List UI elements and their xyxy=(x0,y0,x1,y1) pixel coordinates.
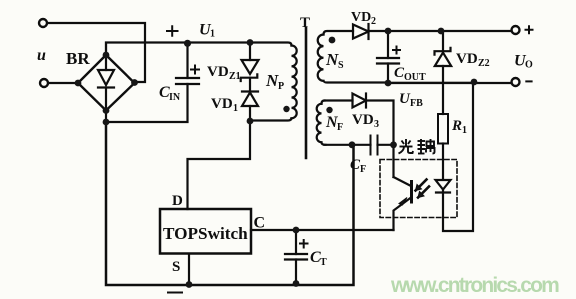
svg-text:www.cntronics.com: www.cntronics.com xyxy=(390,274,559,297)
svg-text:T: T xyxy=(300,15,310,31)
svg-text:S: S xyxy=(172,259,180,275)
svg-text:2: 2 xyxy=(371,16,376,27)
svg-text:3: 3 xyxy=(374,119,379,130)
svg-text:P: P xyxy=(278,81,284,92)
svg-text:OUT: OUT xyxy=(404,72,426,83)
svg-text:u: u xyxy=(37,47,46,64)
svg-text:R: R xyxy=(451,118,462,134)
svg-text:FB: FB xyxy=(410,98,423,109)
svg-text:N: N xyxy=(265,71,279,90)
svg-text:T: T xyxy=(320,257,327,268)
svg-text:VD: VD xyxy=(207,64,229,80)
svg-text:1: 1 xyxy=(210,29,215,40)
svg-text:VD: VD xyxy=(351,10,371,25)
svg-text:O: O xyxy=(525,60,533,71)
svg-text:BR: BR xyxy=(66,49,90,68)
svg-text:1: 1 xyxy=(233,103,238,114)
svg-text:VD: VD xyxy=(456,51,478,67)
svg-text:1: 1 xyxy=(462,125,467,136)
svg-text:IN: IN xyxy=(169,92,181,103)
svg-text:D: D xyxy=(172,193,183,209)
svg-text:F: F xyxy=(337,122,343,133)
svg-text:Z1: Z1 xyxy=(229,71,241,82)
svg-text:VD: VD xyxy=(211,96,233,112)
svg-text:VD: VD xyxy=(352,112,374,128)
svg-text:Z2: Z2 xyxy=(478,58,490,69)
svg-text:N: N xyxy=(325,50,339,69)
svg-text:TOPSwitch: TOPSwitch xyxy=(163,224,248,243)
svg-text:S: S xyxy=(338,60,344,71)
svg-text:F: F xyxy=(360,164,366,175)
svg-text:C: C xyxy=(254,215,266,232)
